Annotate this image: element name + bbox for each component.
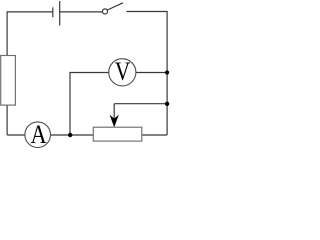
svg-text:A: A — [30, 120, 46, 149]
svg-text:V: V — [115, 58, 131, 87]
